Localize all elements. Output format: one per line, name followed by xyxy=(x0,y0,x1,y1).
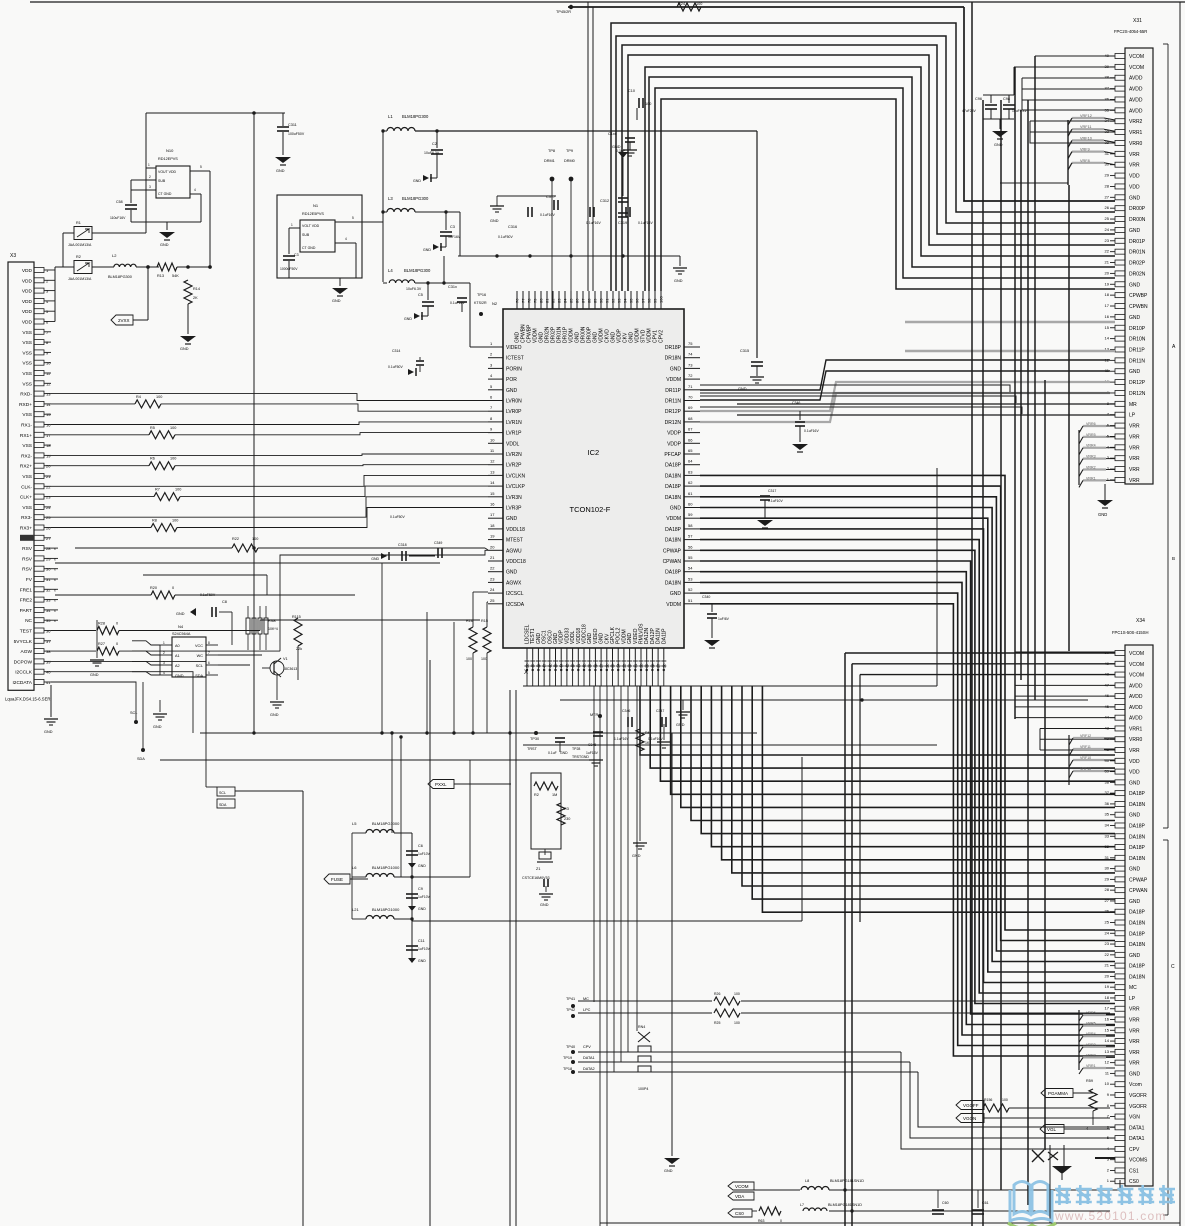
svg-text:98: 98 xyxy=(647,298,652,303)
svg-text:39: 39 xyxy=(1105,64,1110,69)
svg-text:SDA: SDA xyxy=(137,757,145,761)
svg-text:R4: R4 xyxy=(136,395,141,399)
svg-text:ICTEST: ICTEST xyxy=(506,356,524,362)
svg-text:GND: GND xyxy=(404,317,412,321)
svg-text:DA18P: DA18P xyxy=(1129,931,1146,937)
svg-text:VSS: VSS xyxy=(22,474,32,480)
svg-text:VDD: VDD xyxy=(22,320,33,326)
svg-text:R156: R156 xyxy=(984,1098,992,1102)
svg-text:LVR2P: LVR2P xyxy=(506,463,522,469)
svg-text:VGN: VGN xyxy=(1129,1115,1140,1121)
svg-text:C340: C340 xyxy=(702,595,710,599)
svg-text:70: 70 xyxy=(688,395,693,400)
svg-text:DR18N: DR18N xyxy=(665,356,682,362)
svg-text:100: 100 xyxy=(734,1021,740,1025)
svg-text:DR00N: DR00N xyxy=(1129,217,1146,223)
svg-text:GND: GND xyxy=(1129,867,1141,873)
svg-text:16: 16 xyxy=(490,502,495,507)
svg-text:DR11N: DR11N xyxy=(1129,358,1145,364)
svg-text:18: 18 xyxy=(490,523,495,528)
svg-text:19: 19 xyxy=(490,534,495,539)
svg-text:0.1uF50V: 0.1uF50V xyxy=(390,515,405,519)
svg-text:CT GND: CT GND xyxy=(158,192,172,196)
svg-text:R13: R13 xyxy=(157,274,164,278)
svg-text:LVR2N: LVR2N xyxy=(506,452,522,458)
svg-text:R2: R2 xyxy=(534,793,539,797)
svg-text:R14: R14 xyxy=(193,287,200,291)
svg-text:RN8: RN8 xyxy=(268,619,276,623)
svg-text:10uF6.3V: 10uF6.3V xyxy=(424,151,440,155)
svg-text:CS0: CS0 xyxy=(735,1211,744,1216)
svg-text:TP30: TP30 xyxy=(530,737,539,741)
svg-text:VRR4: VRR4 xyxy=(1086,444,1096,448)
svg-text:76: 76 xyxy=(515,298,520,303)
svg-text:SDA: SDA xyxy=(219,803,227,807)
svg-text:CPWAN: CPWAN xyxy=(663,559,682,565)
svg-text:17: 17 xyxy=(46,433,51,438)
svg-text:15: 15 xyxy=(1105,325,1110,330)
svg-text:VCOM: VCOM xyxy=(1129,54,1144,60)
svg-text:C6: C6 xyxy=(418,844,423,848)
svg-text:BLM18PG300: BLM18PG300 xyxy=(404,268,431,273)
svg-text:TP18: TP18 xyxy=(563,1067,572,1071)
svg-text:19: 19 xyxy=(1105,281,1110,286)
svg-text:C317: C317 xyxy=(546,195,555,199)
svg-text:22: 22 xyxy=(490,566,495,571)
svg-text:BLM18PG300: BLM18PG300 xyxy=(402,196,429,201)
svg-text:R3: R3 xyxy=(564,807,569,811)
svg-text:POR: POR xyxy=(506,377,517,383)
svg-text:RX2-: RX2- xyxy=(21,453,32,459)
svg-text:DR11N: DR11N xyxy=(665,399,681,405)
svg-text:C318: C318 xyxy=(398,543,407,547)
svg-text:100: 100 xyxy=(175,488,181,492)
svg-text:VDDM: VDDM xyxy=(666,377,681,383)
svg-text:GND: GND xyxy=(506,516,518,522)
svg-text:DA18N: DA18N xyxy=(1129,921,1146,927)
svg-text:VRR: VRR xyxy=(1129,456,1140,462)
svg-text:TP8: TP8 xyxy=(548,149,555,153)
svg-text:DA18P: DA18P xyxy=(1129,823,1146,829)
svg-text:GND: GND xyxy=(413,179,421,183)
svg-text:C2: C2 xyxy=(432,142,437,146)
svg-text:VDDP: VDDP xyxy=(667,441,682,447)
svg-text:54K: 54K xyxy=(172,274,179,278)
svg-text:90: 90 xyxy=(599,298,604,303)
svg-text:x: x xyxy=(54,609,56,613)
svg-text:59: 59 xyxy=(688,512,693,517)
svg-text:14: 14 xyxy=(490,480,495,485)
svg-text:SCL: SCL xyxy=(219,791,226,795)
svg-text:24: 24 xyxy=(490,587,495,592)
svg-text:VDD: VDD xyxy=(1129,184,1140,190)
svg-text:4: 4 xyxy=(345,237,347,241)
svg-text:AGWU: AGWU xyxy=(506,548,522,554)
svg-text:21: 21 xyxy=(1105,260,1110,265)
svg-text:A2: A2 xyxy=(175,664,180,668)
svg-text:19: 19 xyxy=(1105,984,1110,989)
svg-text:VRR: VRR xyxy=(1129,478,1140,484)
svg-text:GND: GND xyxy=(506,570,518,576)
svg-text:VSS: VSS xyxy=(22,330,32,336)
svg-text:TCON102-F: TCON102-F xyxy=(570,505,611,514)
svg-text:DA18P: DA18P xyxy=(1129,964,1146,970)
svg-text:25: 25 xyxy=(1105,216,1110,221)
svg-text:21: 21 xyxy=(46,474,51,479)
svg-text:17: 17 xyxy=(490,512,495,517)
svg-text:84: 84 xyxy=(563,298,568,303)
svg-text:N4: N4 xyxy=(178,624,184,629)
svg-text:38: 38 xyxy=(46,649,51,654)
svg-text:R59: R59 xyxy=(1086,1079,1093,1083)
svg-text:DA18P: DA18P xyxy=(665,570,682,576)
svg-text:13: 13 xyxy=(490,469,495,474)
svg-text:IC2: IC2 xyxy=(588,448,600,457)
svg-text:75: 75 xyxy=(688,341,693,346)
svg-text:L3: L3 xyxy=(388,196,393,201)
svg-text:R115: R115 xyxy=(292,615,301,619)
svg-text:GND: GND xyxy=(632,854,641,858)
svg-text:AVDD: AVDD xyxy=(1129,108,1143,114)
svg-text:0.1uF16V: 0.1uF16V xyxy=(638,221,653,225)
svg-text:VGON: VGON xyxy=(963,1116,976,1121)
svg-text:KTS/2R: KTS/2R xyxy=(474,301,487,305)
svg-text:GND: GND xyxy=(175,674,184,678)
svg-text:BLM18PG300: BLM18PG300 xyxy=(402,114,429,119)
svg-text:VRF11: VRF11 xyxy=(1080,125,1092,129)
svg-text:DR12P: DR12P xyxy=(1129,380,1146,386)
svg-text:GND: GND xyxy=(153,725,162,729)
svg-text:DCPOW: DCPOW xyxy=(14,659,33,665)
svg-text:R27: R27 xyxy=(98,642,105,646)
svg-text:GND: GND xyxy=(612,145,621,149)
svg-text:R26: R26 xyxy=(714,992,720,996)
svg-text:C58: C58 xyxy=(116,200,123,204)
svg-text:R8: R8 xyxy=(152,519,157,523)
svg-text:FRE2: FRE2 xyxy=(20,598,33,604)
svg-text:5: 5 xyxy=(352,216,354,220)
svg-text:5: 5 xyxy=(208,671,210,675)
svg-text:10uF6.3V: 10uF6.3V xyxy=(406,287,422,291)
svg-text:30: 30 xyxy=(1105,866,1110,871)
svg-text:VRR: VRR xyxy=(1129,1007,1140,1013)
svg-text:24: 24 xyxy=(1105,930,1110,935)
svg-text:73: 73 xyxy=(688,362,693,367)
svg-text:JAA.001M13/A: JAA.001M13/A xyxy=(68,277,92,281)
svg-text:DR01P: DR01P xyxy=(1129,239,1146,245)
svg-text:14: 14 xyxy=(1105,1038,1110,1043)
svg-text:R28: R28 xyxy=(98,622,105,626)
svg-text:I2CDATA: I2CDATA xyxy=(12,680,32,686)
svg-text:CS0: CS0 xyxy=(1129,1179,1139,1185)
svg-text:Vcom: Vcom xyxy=(1129,1082,1142,1088)
svg-text:22: 22 xyxy=(1105,952,1110,957)
svg-text:BLM18PG300: BLM18PG300 xyxy=(108,275,132,279)
svg-text:LVR0P: LVR0P xyxy=(506,409,522,415)
svg-text:CPWBN: CPWBN xyxy=(1129,304,1148,310)
svg-text:VRR: VRR xyxy=(1129,1028,1140,1034)
svg-text:GND: GND xyxy=(270,713,279,717)
svg-text:VCOM: VCOM xyxy=(1129,673,1144,679)
svg-text:7: 7 xyxy=(208,651,210,655)
svg-text:97: 97 xyxy=(641,298,646,303)
svg-text:60: 60 xyxy=(688,502,693,507)
svg-text:VDDP: VDDP xyxy=(667,431,682,437)
svg-text:100: 100 xyxy=(645,102,651,106)
svg-text:1uF10V: 1uF10V xyxy=(418,852,431,856)
svg-text:C311: C311 xyxy=(288,123,297,127)
svg-text:N1: N1 xyxy=(313,203,319,208)
svg-text:BLM18PG181SN1D: BLM18PG181SN1D xyxy=(830,1179,864,1183)
svg-text:CLK+: CLK+ xyxy=(20,495,32,501)
svg-text:C8: C8 xyxy=(222,600,227,604)
svg-text:L4: L4 xyxy=(388,268,393,273)
svg-text:55: 55 xyxy=(688,555,693,560)
svg-text:39: 39 xyxy=(46,659,51,664)
svg-text:C96: C96 xyxy=(975,97,982,101)
svg-text:RX1+: RX1+ xyxy=(20,433,32,439)
svg-text:VSS: VSS xyxy=(22,340,32,346)
svg-text:GND: GND xyxy=(160,243,169,247)
svg-text:C: C xyxy=(1171,964,1175,970)
svg-text:R22: R22 xyxy=(232,537,239,541)
svg-text:100: 100 xyxy=(252,537,258,541)
svg-text:14: 14 xyxy=(1105,336,1110,341)
svg-text:AGWX: AGWX xyxy=(506,580,522,586)
svg-text:VDD: VDD xyxy=(22,309,33,315)
svg-text:L21: L21 xyxy=(352,907,359,912)
svg-text:VGOFF: VGOFF xyxy=(963,1103,979,1108)
svg-text:19: 19 xyxy=(46,453,51,458)
svg-text:VRF10: VRF10 xyxy=(1080,136,1092,140)
svg-text:L7: L7 xyxy=(800,1203,804,1207)
svg-text:28: 28 xyxy=(46,546,51,551)
svg-text:FV: FV xyxy=(26,577,33,583)
svg-text:C5: C5 xyxy=(418,293,423,297)
svg-text:www.520101.com: www.520101.com xyxy=(1054,1209,1167,1223)
svg-text:86: 86 xyxy=(575,298,580,303)
svg-text:RXD+: RXD+ xyxy=(19,402,32,408)
svg-text:VRF12: VRF12 xyxy=(1080,734,1091,738)
svg-text:CPWAP: CPWAP xyxy=(1129,877,1148,883)
svg-text:VSS: VSS xyxy=(22,412,32,418)
svg-text:29: 29 xyxy=(46,556,51,561)
svg-text:AVDD: AVDD xyxy=(1129,87,1143,93)
svg-text:20: 20 xyxy=(1105,270,1110,275)
svg-text:100: 100 xyxy=(466,657,472,661)
svg-text:3: 3 xyxy=(163,661,165,665)
svg-text:FRE1: FRE1 xyxy=(20,587,33,593)
svg-text:GND: GND xyxy=(423,248,431,252)
svg-text:GND: GND xyxy=(371,557,379,561)
svg-text:x: x xyxy=(54,568,56,572)
svg-text:GND: GND xyxy=(418,907,426,911)
svg-text:GND: GND xyxy=(1098,512,1107,517)
svg-text:C61: C61 xyxy=(982,1201,989,1205)
svg-text:TEST: TEST xyxy=(20,629,32,635)
svg-text:PGAMMA: PGAMMA xyxy=(1048,1091,1068,1096)
svg-text:25: 25 xyxy=(1105,920,1110,925)
svg-text:12: 12 xyxy=(1105,1060,1110,1065)
svg-text:VRR4: VRR4 xyxy=(1086,1032,1096,1036)
svg-text:VRF12: VRF12 xyxy=(1080,114,1092,118)
svg-text:3: 3 xyxy=(149,185,151,189)
svg-text:10: 10 xyxy=(1105,1081,1110,1086)
svg-text:C11: C11 xyxy=(418,939,425,943)
svg-text:SUB: SUB xyxy=(158,179,166,183)
svg-text:32: 32 xyxy=(46,587,51,592)
svg-text:VRR: VRR xyxy=(1129,163,1140,169)
svg-text:8: 8 xyxy=(208,641,210,645)
svg-text:DA18N: DA18N xyxy=(1129,834,1146,840)
svg-text:BLM18PG1000: BLM18PG1000 xyxy=(372,821,400,826)
svg-text:VRR1: VRR1 xyxy=(1086,476,1096,480)
svg-text:GND: GND xyxy=(418,864,426,868)
svg-text:15: 15 xyxy=(490,491,495,496)
svg-text:R5: R5 xyxy=(150,426,155,430)
svg-text:FPC2S-4054-55R: FPC2S-4054-55R xyxy=(1114,29,1147,34)
svg-text:RD12EPVS: RD12EPVS xyxy=(158,157,178,161)
svg-text:FPC1S-50S-415SH: FPC1S-50S-415SH xyxy=(1112,630,1149,635)
svg-text:AVDD: AVDD xyxy=(1129,683,1143,689)
svg-text:110uF16V: 110uF16V xyxy=(110,216,126,220)
svg-text:72: 72 xyxy=(688,373,693,378)
svg-text:VDDL: VDDL xyxy=(506,441,520,447)
svg-text:GND: GND xyxy=(90,673,99,677)
svg-text:SCL: SCL xyxy=(130,711,137,715)
svg-text:Z1: Z1 xyxy=(536,867,540,871)
svg-text:22: 22 xyxy=(46,484,51,489)
svg-text:DA18P: DA18P xyxy=(1129,845,1146,851)
svg-text:VRR: VRR xyxy=(1129,1039,1140,1045)
svg-text:GND: GND xyxy=(540,903,549,907)
svg-text:66: 66 xyxy=(688,437,693,442)
svg-text:22k: 22k xyxy=(296,647,302,651)
svg-text:GND: GND xyxy=(276,169,285,173)
svg-text:VRF10: VRF10 xyxy=(1080,756,1091,760)
svg-text:12: 12 xyxy=(46,381,51,386)
svg-text:RXD-: RXD- xyxy=(20,392,32,398)
svg-text:R24: R24 xyxy=(678,2,685,6)
svg-text:28: 28 xyxy=(1105,887,1110,892)
svg-text:6: 6 xyxy=(208,661,210,665)
svg-text:FUSE: FUSE xyxy=(331,877,343,882)
svg-text:78: 78 xyxy=(527,298,532,303)
svg-text:VRR: VRR xyxy=(1129,1050,1140,1056)
svg-text:TP9: TP9 xyxy=(566,149,573,153)
svg-text:VRR2: VRR2 xyxy=(1129,119,1143,125)
svg-text:C60: C60 xyxy=(942,1201,949,1205)
svg-text:5: 5 xyxy=(200,165,202,169)
svg-text:CSTCE16M0V53: CSTCE16M0V53 xyxy=(522,876,550,880)
svg-text:29: 29 xyxy=(1105,876,1110,881)
svg-text:DA18N: DA18N xyxy=(1129,974,1146,980)
svg-text:VRF8: VRF8 xyxy=(1080,159,1090,163)
svg-text:DA18N: DA18N xyxy=(1129,942,1146,948)
svg-text:VRR: VRR xyxy=(1129,434,1140,440)
svg-text:94: 94 xyxy=(623,298,628,303)
svg-text:0.1uF10V: 0.1uF10V xyxy=(768,499,783,503)
svg-text:79: 79 xyxy=(533,298,538,303)
svg-text:29: 29 xyxy=(1105,173,1110,178)
svg-text:CLK-: CLK- xyxy=(21,484,32,490)
svg-text:20: 20 xyxy=(490,544,495,549)
svg-text:27: 27 xyxy=(1105,194,1110,199)
svg-text:x: x xyxy=(54,619,56,623)
svg-text:100: 100 xyxy=(156,395,162,399)
svg-text:X3: X3 xyxy=(10,253,16,259)
svg-text:A0: A0 xyxy=(175,644,180,648)
svg-text:CPV: CPV xyxy=(583,1045,591,1049)
svg-text:GND: GND xyxy=(332,299,341,303)
svg-text:99: 99 xyxy=(653,298,658,303)
svg-text:RSV: RSV xyxy=(22,546,33,552)
svg-text:25: 25 xyxy=(490,598,495,603)
svg-text:PXXL: PXXL xyxy=(435,782,447,787)
svg-text:35: 35 xyxy=(46,618,51,623)
svg-text:GND: GND xyxy=(674,279,683,283)
svg-text:52: 52 xyxy=(688,587,693,592)
svg-text:37: 37 xyxy=(1105,86,1110,91)
svg-text:25: 25 xyxy=(46,515,51,520)
svg-text:35: 35 xyxy=(1105,812,1110,817)
svg-text:DA18N: DA18N xyxy=(665,495,682,501)
svg-text:VGL: VGL xyxy=(1047,1127,1057,1132)
svg-text:VDD: VDD xyxy=(22,268,33,274)
svg-text:82: 82 xyxy=(551,298,556,303)
svg-text:TP19: TP19 xyxy=(563,1056,572,1060)
svg-text:13: 13 xyxy=(1105,1049,1110,1054)
svg-text:DA18N: DA18N xyxy=(665,473,682,479)
svg-text:VRR5: VRR5 xyxy=(1086,433,1096,437)
svg-text:C312: C312 xyxy=(600,199,609,203)
svg-text:DA18N: DA18N xyxy=(665,580,682,586)
svg-text:DR01N: DR01N xyxy=(1129,250,1146,256)
svg-text:1: 1 xyxy=(163,641,165,645)
svg-text:0.1uF16V: 0.1uF16V xyxy=(804,429,819,433)
svg-text:MR: MR xyxy=(1129,402,1137,408)
svg-text:B: B xyxy=(1172,556,1175,561)
svg-text:GND: GND xyxy=(1129,228,1141,234)
svg-text:DR11P: DR11P xyxy=(665,388,681,394)
svg-text:38: 38 xyxy=(1105,75,1110,80)
svg-text:VSS: VSS xyxy=(22,371,32,377)
svg-text:31: 31 xyxy=(46,577,51,582)
svg-text:40: 40 xyxy=(46,670,51,675)
svg-text:DA18P: DA18P xyxy=(665,527,682,533)
svg-text:DR18P: DR18P xyxy=(665,345,682,351)
svg-text:VRF11: VRF11 xyxy=(1080,745,1091,749)
svg-text:VRR2: VRR2 xyxy=(1086,1053,1096,1057)
svg-text:DR12N: DR12N xyxy=(1129,391,1146,397)
svg-text:TP41: TP41 xyxy=(566,997,575,1001)
svg-text:36: 36 xyxy=(1105,801,1110,806)
svg-text:MTEST: MTEST xyxy=(506,538,523,544)
svg-text:0.1uF16V: 0.1uF16V xyxy=(540,213,555,217)
svg-text:VRR1: VRR1 xyxy=(1129,130,1143,136)
svg-text:R20: R20 xyxy=(150,586,157,590)
svg-text:23: 23 xyxy=(46,495,51,500)
svg-text:GND: GND xyxy=(670,506,682,512)
svg-text:GND: GND xyxy=(1129,1071,1141,1077)
svg-text:LP: LP xyxy=(1129,413,1136,419)
svg-text:92: 92 xyxy=(611,298,616,303)
svg-text:I2CSCL: I2CSCL xyxy=(506,591,524,597)
svg-text:DA18N: DA18N xyxy=(665,538,682,544)
svg-text:100: 100 xyxy=(172,519,178,523)
svg-text:DA18P: DA18P xyxy=(1129,910,1146,916)
svg-text:89: 89 xyxy=(593,298,598,303)
